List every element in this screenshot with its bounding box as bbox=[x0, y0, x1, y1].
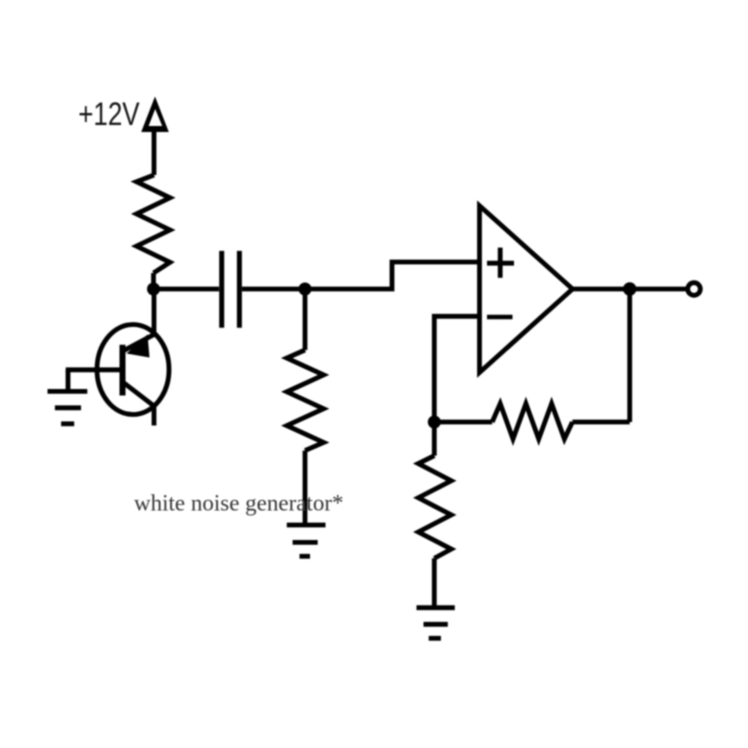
wire node C down to R4 bbox=[432, 422, 437, 456]
wire R2 to ground bbox=[303, 451, 308, 526]
svg-text:white noise generator*: white noise generator* bbox=[134, 491, 343, 516]
wire to feedback resistor R3 bbox=[572, 420, 629, 425]
node A junction dot bbox=[147, 283, 160, 296]
wire from supply to R1 bbox=[152, 129, 157, 175]
wire capacitor to node B bbox=[242, 287, 305, 292]
ground (transistor base) bbox=[48, 391, 88, 423]
node B junction dot bbox=[299, 283, 312, 296]
wire node A to capacitor C1 bbox=[154, 287, 220, 292]
node D junction dot bbox=[623, 282, 636, 295]
output terminal bbox=[688, 283, 701, 296]
svg-text:+12V: +12V bbox=[78, 96, 140, 132]
ground (R4) bbox=[417, 608, 455, 639]
resistor R2 bbox=[287, 350, 324, 451]
ground (R2) bbox=[287, 525, 326, 556]
wire R3 to node C bbox=[434, 420, 492, 425]
power +12V label bbox=[78, 96, 140, 132]
wire node B down to R2 bbox=[303, 289, 308, 350]
wire op-amp output to node D bbox=[573, 287, 687, 292]
resistor R3 (feedback) bbox=[492, 404, 572, 439]
wire node D down to feedback bbox=[627, 289, 632, 422]
caption: white noise generator* bbox=[134, 491, 343, 516]
resistor R1 bbox=[137, 175, 171, 273]
op-amp U1 bbox=[480, 206, 573, 373]
node C junction dot bbox=[428, 416, 441, 429]
resistor R4 bbox=[418, 456, 451, 559]
wire R4 to ground bbox=[432, 558, 437, 607]
wire transistor emitter stub bbox=[152, 406, 157, 426]
power supply arrow symbol bbox=[141, 97, 169, 133]
capacitor C1 bbox=[222, 251, 240, 328]
transistor Q1 bbox=[66, 325, 169, 415]
wire R1 to node A bbox=[151, 273, 156, 289]
wire node A down to transistor collector bbox=[152, 289, 157, 335]
wire transistor base to ground bbox=[66, 370, 71, 393]
wire op-amp inverting input bbox=[434, 316, 479, 422]
wire node B to op-amp + input (with step) bbox=[305, 262, 480, 289]
